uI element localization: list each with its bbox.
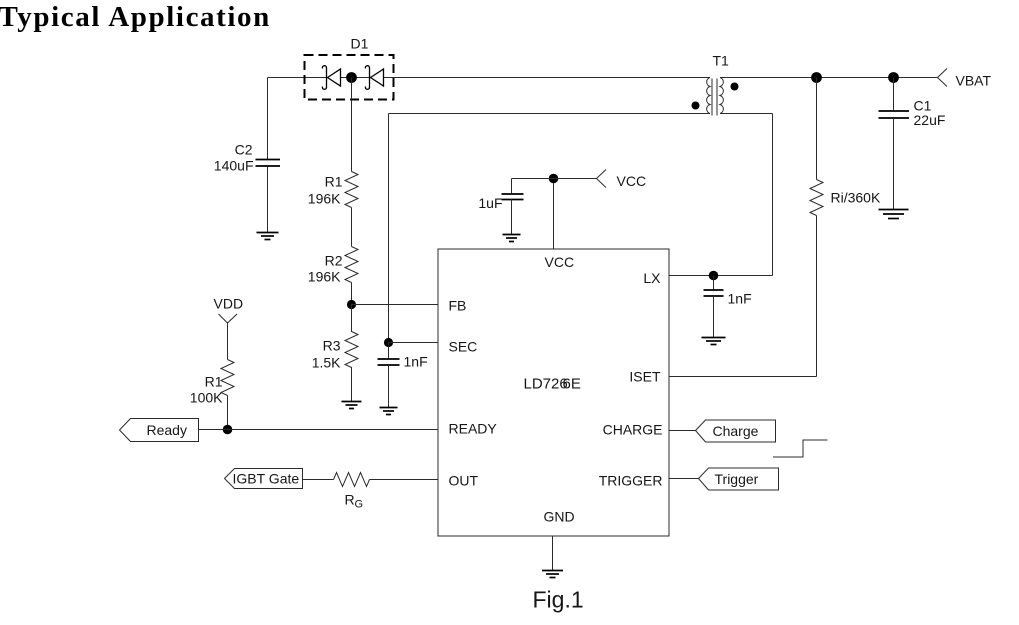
ground (GND pin) xyxy=(542,571,563,578)
svg-text:Fig.1: Fig.1 xyxy=(533,587,584,613)
capacitor C1 xyxy=(879,111,910,118)
diode D1 dashed box xyxy=(305,55,394,100)
svg-text:1uF: 1uF xyxy=(478,195,502,211)
wire VCC pin to VCC node xyxy=(553,179,555,249)
wire GND pin xyxy=(552,536,554,571)
resistor R3 xyxy=(345,305,358,402)
wire top VBAT rail left segment xyxy=(268,77,711,79)
resistor R1 (100K) xyxy=(221,360,234,396)
junction LX node xyxy=(709,271,719,281)
wire ISET pin xyxy=(669,376,817,378)
svg-text:GND: GND xyxy=(544,509,575,525)
svg-text:1nF: 1nF xyxy=(404,354,428,370)
connector IGBT Gate xyxy=(225,469,303,489)
svg-text:Ready: Ready xyxy=(147,422,187,438)
svg-text:R3: R3 xyxy=(323,338,341,354)
svg-text:1nF: 1nF xyxy=(728,291,752,307)
svg-text:SEC: SEC xyxy=(449,339,478,355)
connector Trigger xyxy=(699,468,779,490)
svg-text:R2: R2 xyxy=(325,253,343,269)
IC U1 LD7266E body xyxy=(438,249,669,536)
wire TRIGGER pin xyxy=(669,478,699,480)
svg-text:Charge: Charge xyxy=(713,423,759,439)
U1 part number label xyxy=(524,376,581,393)
transformer T1 xyxy=(692,78,739,116)
svg-text:Typical Application: Typical Application xyxy=(0,1,271,33)
wire FB node to FB pin xyxy=(352,304,438,306)
junction READY node xyxy=(223,425,233,435)
svg-text:FB: FB xyxy=(449,298,467,314)
wire VDD to R1 (100K) xyxy=(227,323,229,360)
svg-text:R: R xyxy=(345,492,355,508)
resistor R1 xyxy=(345,172,358,208)
svg-text:R1: R1 xyxy=(205,374,223,390)
svg-text:T1: T1 xyxy=(713,53,730,69)
power VDD symbol xyxy=(219,314,238,323)
svg-text:VCC: VCC xyxy=(617,173,647,189)
svg-text:196K: 196K xyxy=(308,191,341,207)
resistor Ri xyxy=(810,180,823,216)
wire T1 secondary bottom to LX xyxy=(720,114,773,276)
connector Charge xyxy=(696,420,776,442)
wire C1 to ground xyxy=(893,118,895,210)
svg-text:D1: D1 xyxy=(351,36,369,52)
trigger step waveform symbol xyxy=(773,440,828,457)
T1 secondary winding xyxy=(720,78,723,114)
power VBAT connector xyxy=(938,69,948,87)
wire Ready to READY pin xyxy=(199,429,438,431)
svg-text:G: G xyxy=(355,499,364,511)
junction at D1 center xyxy=(346,72,357,83)
junction top rail / C1 xyxy=(888,72,899,83)
wire R2 to FB node xyxy=(351,283,353,305)
capacitor C2 xyxy=(256,160,281,167)
ground (C2) xyxy=(257,233,279,240)
wire T1 secondary bottom to SEC node xyxy=(389,114,711,343)
junction FB node xyxy=(347,300,356,309)
svg-text:100K: 100K xyxy=(190,390,223,406)
ground (1nF LX) xyxy=(702,338,726,345)
wire 1uF to ground xyxy=(511,200,513,235)
svg-text:VDD: VDD xyxy=(214,296,244,312)
diode D1a (left zener) xyxy=(322,66,340,90)
wire D1 center down to R1 xyxy=(351,78,353,172)
svg-text:R1: R1 xyxy=(325,174,343,190)
svg-text:C2: C2 xyxy=(235,142,253,158)
ground (C1) xyxy=(879,210,909,219)
wire Ri top xyxy=(816,78,818,180)
wire top VBAT rail right segment xyxy=(720,77,938,79)
T1 phase dot right xyxy=(731,83,739,91)
svg-text:ISET: ISET xyxy=(629,369,661,385)
wire IGBT Gate to RG xyxy=(303,479,334,481)
svg-text:LX: LX xyxy=(643,270,661,286)
resistor RG xyxy=(334,473,370,487)
svg-text:6E: 6E xyxy=(563,376,581,393)
wire RG to OUT pin xyxy=(370,479,438,481)
ground (R3) xyxy=(342,402,362,409)
resistor R2 xyxy=(345,247,358,283)
T1 primary winding xyxy=(707,78,710,114)
wire C1 top xyxy=(893,78,895,112)
diode D1b (right zener) xyxy=(365,66,383,90)
wire VCC node to VCC connector xyxy=(554,178,597,180)
wire 1nF (LX) to ground xyxy=(713,296,715,338)
wire C2 branch vertical xyxy=(267,78,269,233)
ground (1uF) xyxy=(503,235,521,242)
svg-text:TRIGGER: TRIGGER xyxy=(599,473,663,489)
capacitor 1nF (LX) xyxy=(704,290,724,296)
svg-text:140uF: 140uF xyxy=(214,158,254,174)
wire 1nF (SEC) to ground xyxy=(388,365,390,408)
T1 core xyxy=(712,79,717,116)
wire R1 to R2 xyxy=(351,208,353,247)
svg-text:22uF: 22uF xyxy=(914,112,946,128)
capacitor 1uF xyxy=(502,194,524,200)
wire CHARGE pin xyxy=(669,430,696,432)
wire Ri to ISET xyxy=(816,216,818,377)
junction VCC node xyxy=(549,174,559,184)
svg-text:CHARGE: CHARGE xyxy=(603,422,663,438)
power VCC connector xyxy=(597,170,607,188)
svg-text:Ri/360K: Ri/360K xyxy=(831,190,881,206)
ground (1nF SEC) xyxy=(380,408,398,415)
wire R1 (100K) to READY node xyxy=(227,396,229,430)
T1 phase dot left xyxy=(692,102,700,110)
junction top rail / Ri xyxy=(811,72,822,83)
wire LX node to 1nF xyxy=(713,276,715,291)
svg-text:VBAT: VBAT xyxy=(956,73,992,89)
svg-text:Trigger: Trigger xyxy=(715,471,759,487)
wire LX pin xyxy=(669,275,773,277)
connector Ready xyxy=(120,419,199,442)
RG reference label xyxy=(345,492,364,511)
svg-text:VCC: VCC xyxy=(545,254,575,270)
svg-text:IGBT Gate: IGBT Gate xyxy=(233,471,300,487)
wire VCC node to 1uF xyxy=(512,179,554,195)
capacitor 1nF (SEC) xyxy=(378,359,400,365)
svg-text:1.5K: 1.5K xyxy=(312,355,341,371)
svg-text:LD726: LD726 xyxy=(524,376,568,393)
wire SEC node to SEC pin xyxy=(389,342,438,344)
svg-text:OUT: OUT xyxy=(449,473,479,489)
junction SEC node xyxy=(384,338,393,347)
svg-text:READY: READY xyxy=(449,421,498,437)
wire SEC node to capacitor xyxy=(388,343,390,360)
svg-text:196K: 196K xyxy=(308,269,341,285)
